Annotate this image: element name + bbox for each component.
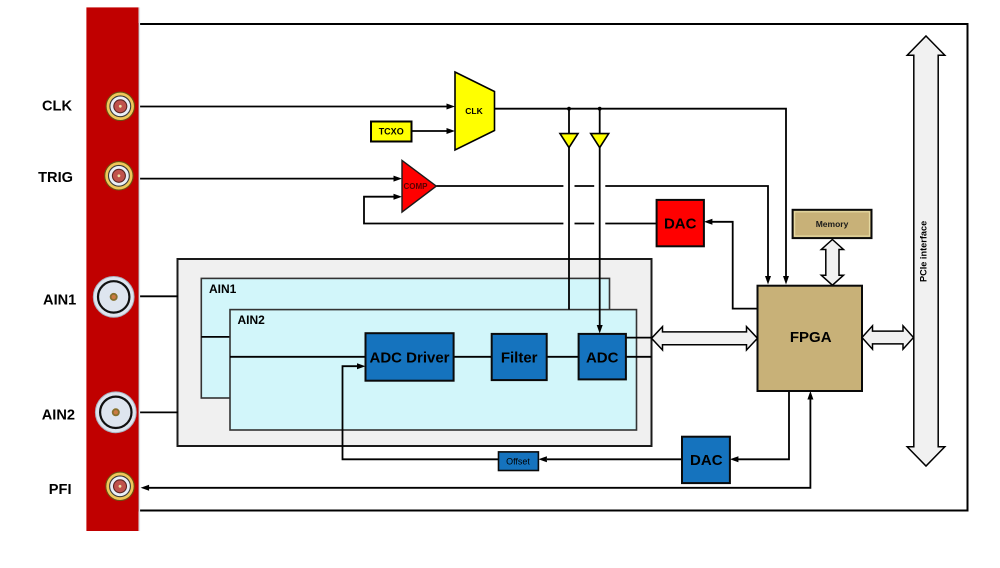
multiplexer CLK (yellow trapezoid) xyxy=(455,72,495,150)
wire CLK connector to CLK mux xyxy=(138,106,447,108)
wire AIN1 connector to channel block xyxy=(138,295,178,297)
clock buffer B1 (yellow triangle) xyxy=(560,134,578,148)
svg-text:AIN1: AIN1 xyxy=(43,293,76,309)
clock buffer B2 (yellow triangle) xyxy=(591,134,609,148)
svg-text:AIN1: AIN1 xyxy=(209,282,237,296)
wire Filter to ADC xyxy=(547,356,579,358)
svg-text:DAC: DAC xyxy=(664,215,697,232)
svg-text:Offset: Offset xyxy=(506,457,530,467)
wire PFI to FPGA (bidirectional) xyxy=(149,398,810,488)
wire clock branch to AIN1 channel xyxy=(568,109,570,310)
converter DAC (threshold, red) xyxy=(657,200,704,246)
svg-text:PCIe interface: PCIe interface xyxy=(919,221,929,282)
wire AIN2 into ADC Driver xyxy=(230,356,366,358)
svg-text:CLK: CLK xyxy=(42,98,72,114)
wire ADC data out xyxy=(626,356,652,358)
svg-text:COMP: COMP xyxy=(404,182,429,191)
svg-text:Filter: Filter xyxy=(501,349,538,366)
analog input channels container xyxy=(178,259,652,446)
channel box AIN2 xyxy=(230,310,637,430)
front panel (red bar) xyxy=(86,7,138,531)
svg-text:AIN2: AIN2 xyxy=(42,408,75,424)
wire clock branch to ADC xyxy=(599,109,601,326)
bus ADC-FPGA (double block arrow) xyxy=(652,327,758,350)
bus Memory-FPGA (double block arrow) xyxy=(821,240,843,286)
wire comparator output to FPGA (with crossover gaps) xyxy=(436,185,563,187)
svg-text:PFI: PFI xyxy=(49,482,72,498)
svg-text:CLK: CLK xyxy=(465,106,483,116)
connector AIN2 xyxy=(95,392,136,433)
front panel edge highlight xyxy=(139,7,141,531)
node clock junction 1 xyxy=(567,107,571,111)
connector PFI xyxy=(106,472,134,500)
wire offset correction into ADC Driver xyxy=(343,366,499,459)
memory block xyxy=(793,210,872,238)
svg-text:TRIG: TRIG xyxy=(38,170,73,186)
svg-text:DAC: DAC xyxy=(690,452,723,469)
bus PCIe interface (large vertical double arrow) xyxy=(907,36,945,466)
svg-text:ADC: ADC xyxy=(586,349,619,366)
svg-text:AIN2: AIN2 xyxy=(238,313,266,327)
wire AIN1 channel stub xyxy=(201,336,230,338)
wire ADC Driver to Filter xyxy=(454,356,492,358)
wire AIN1 channel data out xyxy=(626,337,652,339)
offset block xyxy=(499,452,539,471)
wire TCXO to CLK mux xyxy=(412,130,448,132)
converter ADC xyxy=(579,334,626,380)
wire DAC to Offset xyxy=(547,458,682,460)
comparator COMP (red triangle) xyxy=(402,160,436,212)
wire CLK mux output to FPGA xyxy=(495,109,787,277)
oscillator TCXO xyxy=(371,122,412,142)
channel box AIN1 xyxy=(201,278,609,398)
svg-text:TCXO: TCXO xyxy=(379,127,404,137)
wire FPGA to threshold DAC xyxy=(712,222,758,309)
connector CLK xyxy=(106,92,134,120)
connector AIN1 xyxy=(93,277,134,318)
wire TRIG connector to comparator xyxy=(138,178,394,180)
filter F1 xyxy=(492,334,547,380)
node clock junction 2 xyxy=(598,107,602,111)
svg-text:Memory: Memory xyxy=(816,219,849,229)
svg-text:ADC Driver: ADC Driver xyxy=(369,349,449,366)
wire FPGA to offset DAC xyxy=(738,391,789,459)
converter DAC (offset, blue) xyxy=(682,437,730,483)
board outline xyxy=(138,24,968,511)
wire AIN2 connector to channel block xyxy=(138,411,178,413)
bus FPGA-PCIe (double block arrow) xyxy=(862,326,914,349)
FPGA U2 xyxy=(758,286,863,391)
svg-text:FPGA: FPGA xyxy=(790,329,832,346)
amplifier U1 ADC Driver xyxy=(366,333,454,381)
wire DAC threshold feedback to comparator (with crossover gaps) xyxy=(605,223,656,225)
connector TRIG xyxy=(105,162,133,190)
